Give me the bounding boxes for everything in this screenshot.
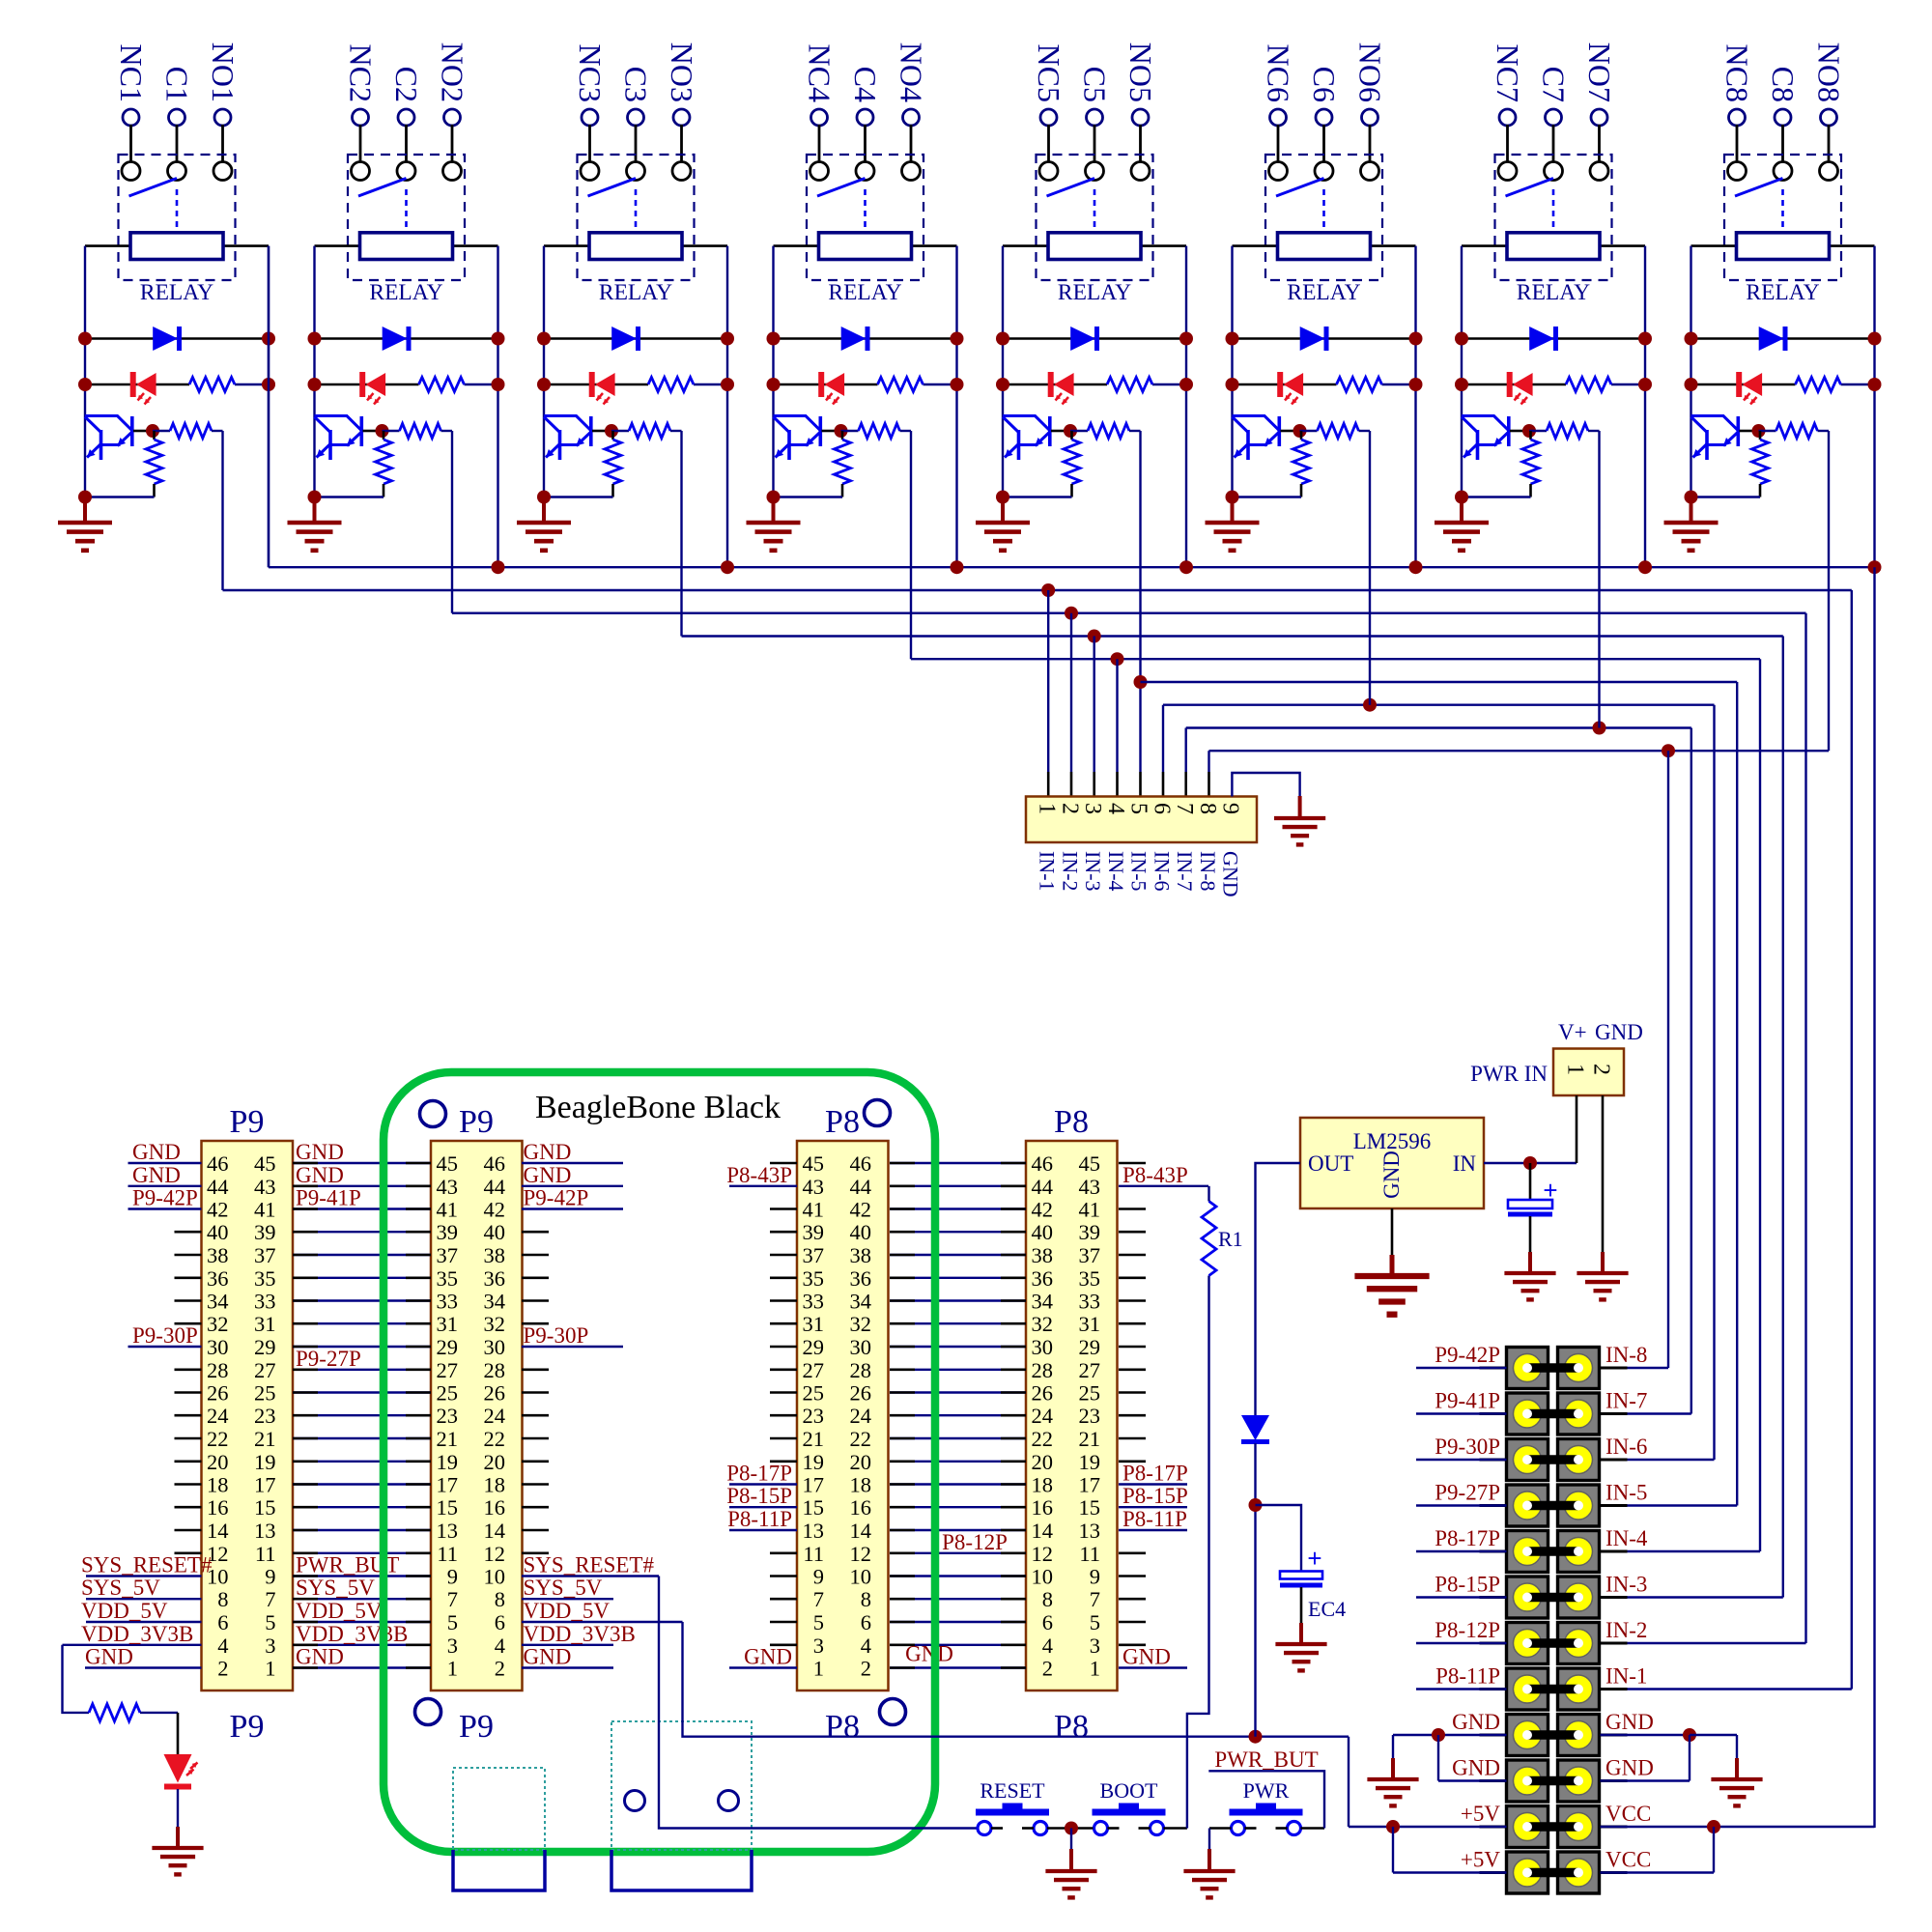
svg-text:NO3: NO3 <box>665 43 699 102</box>
svg-text:42: 42 <box>484 1198 506 1222</box>
svg-text:IN-6: IN-6 <box>1605 1435 1647 1459</box>
svg-text:24: 24 <box>484 1404 506 1428</box>
svg-text:23: 23 <box>803 1404 825 1428</box>
svg-text:NC1: NC1 <box>114 44 149 102</box>
svg-text:17: 17 <box>254 1473 276 1497</box>
svg-text:31: 31 <box>437 1312 459 1336</box>
svg-text:40: 40 <box>484 1220 506 1244</box>
svg-text:7: 7 <box>1090 1587 1100 1611</box>
svg-text:IN-4: IN-4 <box>1104 851 1128 892</box>
svg-text:P8-15P: P8-15P <box>1435 1573 1500 1597</box>
svg-text:3: 3 <box>813 1634 824 1658</box>
svg-text:RELAY: RELAY <box>1287 280 1360 305</box>
svg-text:29: 29 <box>803 1335 825 1359</box>
svg-text:44: 44 <box>207 1175 229 1199</box>
svg-text:34: 34 <box>484 1290 506 1314</box>
svg-text:P9-30P: P9-30P <box>132 1323 198 1348</box>
svg-text:P8: P8 <box>825 1104 860 1140</box>
svg-text:37: 37 <box>437 1243 459 1267</box>
svg-text:P8-17P: P8-17P <box>726 1462 792 1486</box>
svg-text:RESET: RESET <box>980 1778 1045 1803</box>
svg-text:SYS_RESET#: SYS_RESET# <box>524 1553 655 1577</box>
svg-text:39: 39 <box>254 1220 276 1244</box>
svg-text:+5V: +5V <box>1461 1802 1500 1826</box>
svg-text:45: 45 <box>1079 1151 1101 1176</box>
svg-text:1: 1 <box>813 1657 824 1681</box>
svg-text:46: 46 <box>1032 1151 1054 1176</box>
svg-text:38: 38 <box>484 1243 506 1267</box>
svg-text:4: 4 <box>1042 1634 1053 1658</box>
svg-text:P8-43P: P8-43P <box>726 1163 792 1187</box>
svg-text:EC4: EC4 <box>1308 1597 1346 1621</box>
svg-text:GND: GND <box>1219 851 1243 897</box>
svg-text:GND: GND <box>296 1140 344 1164</box>
svg-text:44: 44 <box>484 1175 506 1199</box>
svg-text:10: 10 <box>1032 1565 1054 1589</box>
svg-text:40: 40 <box>850 1220 872 1244</box>
svg-text:IN-7: IN-7 <box>1605 1389 1647 1413</box>
svg-text:RELAY: RELAY <box>140 280 213 305</box>
svg-text:26: 26 <box>850 1381 872 1406</box>
svg-text:P9: P9 <box>230 1709 265 1745</box>
svg-text:IN-1: IN-1 <box>1036 851 1060 892</box>
svg-text:C4: C4 <box>848 67 883 102</box>
svg-text:45: 45 <box>437 1151 459 1176</box>
svg-text:IN-1: IN-1 <box>1605 1664 1647 1689</box>
svg-text:1: 1 <box>447 1657 458 1681</box>
svg-text:P9: P9 <box>459 1104 494 1140</box>
svg-text:33: 33 <box>254 1290 276 1314</box>
svg-text:NO2: NO2 <box>436 43 470 102</box>
svg-text:P8-11P: P8-11P <box>1122 1507 1187 1531</box>
svg-text:16: 16 <box>850 1495 872 1520</box>
svg-text:12: 12 <box>484 1542 506 1566</box>
svg-text:37: 37 <box>254 1243 276 1267</box>
svg-text:40: 40 <box>1032 1220 1054 1244</box>
svg-text:VDD_5V: VDD_5V <box>81 1599 168 1623</box>
svg-text:IN-2: IN-2 <box>1059 851 1083 892</box>
svg-text:34: 34 <box>850 1290 872 1314</box>
svg-text:15: 15 <box>254 1495 276 1520</box>
svg-text:46: 46 <box>850 1151 872 1176</box>
svg-text:RELAY: RELAY <box>828 280 901 305</box>
svg-text:P9: P9 <box>230 1104 265 1140</box>
svg-text:9: 9 <box>265 1565 275 1589</box>
svg-text:VDD_3V3B: VDD_3V3B <box>81 1622 193 1646</box>
svg-text:3: 3 <box>265 1634 275 1658</box>
svg-text:27: 27 <box>1079 1358 1101 1382</box>
svg-text:5: 5 <box>813 1610 824 1634</box>
svg-text:NC6: NC6 <box>1262 44 1296 102</box>
svg-text:17: 17 <box>1079 1473 1101 1497</box>
svg-text:31: 31 <box>1079 1312 1101 1336</box>
svg-text:25: 25 <box>803 1381 825 1406</box>
svg-text:14: 14 <box>1032 1519 1054 1543</box>
svg-text:IN: IN <box>1453 1151 1477 1176</box>
svg-text:44: 44 <box>850 1175 872 1199</box>
svg-text:35: 35 <box>254 1266 276 1291</box>
svg-text:GND: GND <box>744 1645 792 1669</box>
svg-text:13: 13 <box>437 1519 459 1543</box>
svg-text:7: 7 <box>265 1587 275 1611</box>
svg-text:NC8: NC8 <box>1720 44 1755 102</box>
svg-text:37: 37 <box>1079 1243 1101 1267</box>
svg-text:RELAY: RELAY <box>599 280 672 305</box>
svg-text:NO5: NO5 <box>1123 43 1158 102</box>
svg-text:P8: P8 <box>1054 1709 1089 1745</box>
svg-text:IN-5: IN-5 <box>1605 1481 1647 1505</box>
svg-text:SYS_5V: SYS_5V <box>81 1576 160 1600</box>
svg-text:25: 25 <box>254 1381 276 1406</box>
svg-text:41: 41 <box>254 1198 276 1222</box>
svg-text:8: 8 <box>1195 803 1220 814</box>
svg-text:NO4: NO4 <box>895 43 929 102</box>
svg-text:IN-3: IN-3 <box>1605 1573 1647 1597</box>
svg-text:29: 29 <box>1079 1335 1101 1359</box>
svg-text:VCC: VCC <box>1605 1802 1651 1826</box>
svg-text:GND: GND <box>132 1140 181 1164</box>
svg-text:GND: GND <box>524 1140 572 1164</box>
svg-text:42: 42 <box>207 1198 229 1222</box>
svg-text:IN-3: IN-3 <box>1081 851 1105 892</box>
svg-text:P8-17P: P8-17P <box>1122 1462 1188 1486</box>
svg-text:P8-15P: P8-15P <box>726 1484 792 1508</box>
svg-text:21: 21 <box>1079 1427 1101 1451</box>
svg-text:37: 37 <box>803 1243 825 1267</box>
svg-text:GND: GND <box>132 1163 181 1187</box>
svg-text:5: 5 <box>265 1610 275 1634</box>
svg-text:GND: GND <box>85 1645 133 1669</box>
svg-text:20: 20 <box>484 1450 506 1474</box>
svg-text:IN-7: IN-7 <box>1173 851 1197 892</box>
svg-text:14: 14 <box>484 1519 506 1543</box>
svg-text:PWR: PWR <box>1243 1778 1290 1803</box>
svg-text:8: 8 <box>495 1587 505 1611</box>
svg-text:33: 33 <box>803 1290 825 1314</box>
svg-text:36: 36 <box>1032 1266 1054 1291</box>
svg-text:19: 19 <box>803 1450 825 1474</box>
svg-text:16: 16 <box>484 1495 506 1520</box>
svg-text:6: 6 <box>217 1610 228 1634</box>
svg-text:28: 28 <box>1032 1358 1054 1382</box>
svg-text:8: 8 <box>217 1587 228 1611</box>
svg-text:P8-15P: P8-15P <box>1122 1484 1188 1508</box>
svg-text:27: 27 <box>803 1358 825 1382</box>
svg-text:26: 26 <box>1032 1381 1054 1406</box>
svg-text:46: 46 <box>207 1151 229 1176</box>
svg-text:C3: C3 <box>619 67 654 102</box>
svg-text:C1: C1 <box>160 67 195 102</box>
svg-text:GND: GND <box>1452 1756 1500 1780</box>
svg-text:34: 34 <box>1032 1290 1054 1314</box>
svg-text:P9-27P: P9-27P <box>1435 1481 1500 1505</box>
svg-text:10: 10 <box>484 1565 506 1589</box>
svg-text:P9-27P: P9-27P <box>296 1347 361 1371</box>
svg-text:V+: V+ <box>1558 1020 1587 1044</box>
svg-text:42: 42 <box>1032 1198 1054 1222</box>
svg-text:+5V: +5V <box>1461 1848 1500 1872</box>
svg-text:VDD_5V: VDD_5V <box>524 1599 611 1623</box>
svg-text:23: 23 <box>254 1404 276 1428</box>
svg-text:NO7: NO7 <box>1582 43 1617 102</box>
svg-text:2: 2 <box>217 1657 228 1681</box>
svg-text:P9-41P: P9-41P <box>296 1186 361 1210</box>
svg-text:43: 43 <box>254 1175 276 1199</box>
svg-text:IN-2: IN-2 <box>1605 1618 1647 1642</box>
svg-text:43: 43 <box>803 1175 825 1199</box>
svg-text:GND: GND <box>524 1163 572 1187</box>
svg-text:42: 42 <box>850 1198 872 1222</box>
svg-text:+: + <box>1307 1544 1321 1573</box>
svg-text:21: 21 <box>437 1427 459 1451</box>
svg-text:20: 20 <box>207 1450 229 1474</box>
svg-text:9: 9 <box>1218 803 1243 814</box>
svg-text:22: 22 <box>1032 1427 1054 1451</box>
svg-text:P8-43P: P8-43P <box>1122 1163 1188 1187</box>
svg-text:SYS_5V: SYS_5V <box>296 1576 375 1600</box>
svg-text:14: 14 <box>850 1519 872 1543</box>
svg-text:SYS_RESET#: SYS_RESET# <box>81 1553 213 1577</box>
svg-text:IN-5: IN-5 <box>1127 851 1151 892</box>
svg-text:BeagleBone Black: BeagleBone Black <box>535 1090 781 1125</box>
svg-text:C2: C2 <box>389 67 424 102</box>
svg-text:22: 22 <box>850 1427 872 1451</box>
svg-text:P9-42P: P9-42P <box>1435 1343 1500 1367</box>
svg-text:11: 11 <box>1079 1542 1100 1566</box>
svg-text:P8-11P: P8-11P <box>727 1507 792 1531</box>
svg-text:32: 32 <box>1032 1312 1054 1336</box>
svg-text:34: 34 <box>207 1290 229 1314</box>
svg-text:+: + <box>1543 1176 1557 1205</box>
svg-text:28: 28 <box>850 1358 872 1382</box>
svg-text:7: 7 <box>447 1587 458 1611</box>
svg-text:6: 6 <box>495 1610 505 1634</box>
svg-text:32: 32 <box>207 1312 229 1336</box>
svg-text:32: 32 <box>484 1312 506 1336</box>
svg-text:29: 29 <box>437 1335 459 1359</box>
svg-text:45: 45 <box>803 1151 825 1176</box>
svg-text:35: 35 <box>803 1266 825 1291</box>
svg-text:GND: GND <box>296 1645 344 1669</box>
svg-text:18: 18 <box>484 1473 506 1497</box>
svg-text:4: 4 <box>861 1634 871 1658</box>
svg-text:41: 41 <box>1079 1198 1101 1222</box>
svg-text:VDD_3V3B: VDD_3V3B <box>524 1622 636 1646</box>
svg-text:GND: GND <box>1379 1151 1404 1199</box>
svg-text:GND: GND <box>1452 1710 1500 1734</box>
svg-text:5: 5 <box>447 1610 458 1634</box>
svg-text:23: 23 <box>437 1404 459 1428</box>
svg-text:11: 11 <box>803 1542 824 1566</box>
svg-text:35: 35 <box>437 1266 459 1291</box>
svg-text:44: 44 <box>1032 1175 1054 1199</box>
svg-text:7: 7 <box>1172 803 1197 814</box>
svg-text:25: 25 <box>437 1381 459 1406</box>
svg-text:P8-12P: P8-12P <box>1435 1618 1500 1642</box>
svg-text:2: 2 <box>861 1657 871 1681</box>
svg-text:P9-42P: P9-42P <box>524 1186 589 1210</box>
svg-text:5: 5 <box>1126 803 1151 814</box>
svg-text:28: 28 <box>484 1358 506 1382</box>
svg-text:P8-17P: P8-17P <box>1435 1526 1500 1550</box>
svg-text:VDD_3V3B: VDD_3V3B <box>296 1622 408 1646</box>
svg-text:SYS_5V: SYS_5V <box>524 1576 603 1600</box>
svg-text:1: 1 <box>1563 1064 1588 1075</box>
svg-text:22: 22 <box>484 1427 506 1451</box>
svg-text:7: 7 <box>813 1587 824 1611</box>
svg-text:9: 9 <box>447 1565 458 1589</box>
svg-text:38: 38 <box>1032 1243 1054 1267</box>
svg-text:33: 33 <box>1079 1290 1101 1314</box>
svg-text:PWR_BUT: PWR_BUT <box>1214 1747 1318 1772</box>
svg-text:32: 32 <box>850 1312 872 1336</box>
svg-text:29: 29 <box>254 1335 276 1359</box>
svg-text:P9-30P: P9-30P <box>1435 1435 1500 1459</box>
svg-text:4: 4 <box>495 1634 505 1658</box>
svg-text:13: 13 <box>254 1519 276 1543</box>
svg-text:17: 17 <box>437 1473 459 1497</box>
svg-text:1: 1 <box>265 1657 275 1681</box>
svg-text:RELAY: RELAY <box>1058 280 1131 305</box>
svg-text:P9-30P: P9-30P <box>524 1323 589 1348</box>
svg-text:NC3: NC3 <box>573 44 608 102</box>
svg-text:GND: GND <box>1605 1756 1654 1780</box>
svg-text:6: 6 <box>1150 803 1175 814</box>
svg-text:P9-41P: P9-41P <box>1435 1389 1500 1413</box>
svg-text:27: 27 <box>254 1358 276 1382</box>
svg-text:18: 18 <box>1032 1473 1054 1497</box>
svg-text:3: 3 <box>1080 803 1105 814</box>
svg-text:6: 6 <box>1042 1610 1053 1634</box>
svg-text:25: 25 <box>1079 1381 1101 1406</box>
svg-text:40: 40 <box>207 1220 229 1244</box>
svg-text:15: 15 <box>1079 1495 1101 1520</box>
svg-text:NO1: NO1 <box>206 43 241 102</box>
svg-text:36: 36 <box>484 1266 506 1291</box>
svg-text:2: 2 <box>1589 1064 1614 1075</box>
svg-text:36: 36 <box>207 1266 229 1291</box>
svg-text:24: 24 <box>1032 1404 1054 1428</box>
svg-text:6: 6 <box>861 1610 871 1634</box>
svg-text:RELAY: RELAY <box>369 280 442 305</box>
svg-text:26: 26 <box>484 1381 506 1406</box>
svg-text:18: 18 <box>207 1473 229 1497</box>
svg-text:5: 5 <box>1090 1610 1100 1634</box>
svg-text:16: 16 <box>207 1495 229 1520</box>
svg-text:36: 36 <box>850 1266 872 1291</box>
svg-text:GND: GND <box>1605 1710 1654 1734</box>
svg-text:9: 9 <box>813 1565 824 1589</box>
svg-text:18: 18 <box>850 1473 872 1497</box>
svg-text:4: 4 <box>217 1634 228 1658</box>
svg-text:23: 23 <box>1079 1404 1101 1428</box>
svg-text:GND: GND <box>524 1645 572 1669</box>
svg-text:15: 15 <box>437 1495 459 1520</box>
svg-text:14: 14 <box>207 1519 229 1543</box>
svg-text:45: 45 <box>254 1151 276 1176</box>
svg-text:35: 35 <box>1079 1266 1101 1291</box>
svg-text:2: 2 <box>1058 803 1083 814</box>
svg-text:3: 3 <box>447 1634 458 1658</box>
svg-text:46: 46 <box>484 1151 506 1176</box>
svg-text:8: 8 <box>861 1587 871 1611</box>
svg-text:GND: GND <box>1122 1645 1171 1669</box>
svg-text:41: 41 <box>437 1198 459 1222</box>
svg-text:GND: GND <box>905 1642 953 1666</box>
svg-text:NO6: NO6 <box>1353 43 1388 102</box>
svg-text:P8: P8 <box>1054 1104 1089 1140</box>
svg-text:P8-11P: P8-11P <box>1435 1664 1500 1689</box>
svg-text:28: 28 <box>207 1358 229 1382</box>
svg-text:15: 15 <box>803 1495 825 1520</box>
svg-text:12: 12 <box>1032 1542 1054 1566</box>
svg-text:P8-12P: P8-12P <box>942 1530 1008 1554</box>
svg-text:11: 11 <box>437 1542 458 1566</box>
svg-text:NC5: NC5 <box>1032 44 1066 102</box>
svg-text:13: 13 <box>1079 1519 1101 1543</box>
svg-text:20: 20 <box>850 1450 872 1474</box>
svg-text:12: 12 <box>850 1542 872 1566</box>
svg-text:41: 41 <box>803 1198 825 1222</box>
svg-text:24: 24 <box>207 1404 229 1428</box>
svg-text:30: 30 <box>1032 1335 1054 1359</box>
svg-text:NO8: NO8 <box>1812 43 1847 102</box>
svg-text:IN-8: IN-8 <box>1196 851 1220 892</box>
svg-text:GND: GND <box>296 1163 344 1187</box>
svg-text:C7: C7 <box>1537 67 1572 102</box>
svg-text:9: 9 <box>1090 1565 1100 1589</box>
svg-text:RELAY: RELAY <box>1746 280 1819 305</box>
svg-text:11: 11 <box>255 1542 276 1566</box>
svg-text:VDD_5V: VDD_5V <box>296 1599 383 1623</box>
svg-text:31: 31 <box>254 1312 276 1336</box>
svg-text:NC4: NC4 <box>803 44 838 102</box>
svg-text:P9-42P: P9-42P <box>132 1186 198 1210</box>
svg-text:4: 4 <box>1103 803 1128 814</box>
svg-text:2: 2 <box>1042 1657 1053 1681</box>
svg-text:R1: R1 <box>1218 1227 1243 1251</box>
svg-text:22: 22 <box>207 1427 229 1451</box>
svg-text:1: 1 <box>1035 803 1060 814</box>
svg-text:C5: C5 <box>1078 67 1113 102</box>
svg-text:3: 3 <box>1090 1634 1100 1658</box>
svg-text:24: 24 <box>850 1404 872 1428</box>
svg-text:PWR IN: PWR IN <box>1470 1062 1548 1086</box>
svg-text:38: 38 <box>207 1243 229 1267</box>
svg-text:BOOT: BOOT <box>1100 1778 1158 1803</box>
svg-text:13: 13 <box>803 1519 825 1543</box>
svg-text:IN-8: IN-8 <box>1605 1343 1647 1367</box>
svg-text:39: 39 <box>1079 1220 1101 1244</box>
svg-text:8: 8 <box>1042 1587 1053 1611</box>
svg-text:27: 27 <box>437 1358 459 1382</box>
svg-text:16: 16 <box>1032 1495 1054 1520</box>
svg-text:2: 2 <box>495 1657 505 1681</box>
svg-text:39: 39 <box>803 1220 825 1244</box>
svg-text:21: 21 <box>254 1427 276 1451</box>
svg-text:39: 39 <box>437 1220 459 1244</box>
svg-text:NC7: NC7 <box>1491 44 1525 102</box>
svg-text:43: 43 <box>437 1175 459 1199</box>
svg-text:C8: C8 <box>1766 67 1801 102</box>
svg-text:C6: C6 <box>1307 67 1342 102</box>
svg-text:17: 17 <box>803 1473 825 1497</box>
svg-text:30: 30 <box>850 1335 872 1359</box>
svg-text:IN-4: IN-4 <box>1605 1526 1648 1550</box>
svg-text:19: 19 <box>437 1450 459 1474</box>
svg-text:10: 10 <box>850 1565 872 1589</box>
svg-text:31: 31 <box>803 1312 825 1336</box>
